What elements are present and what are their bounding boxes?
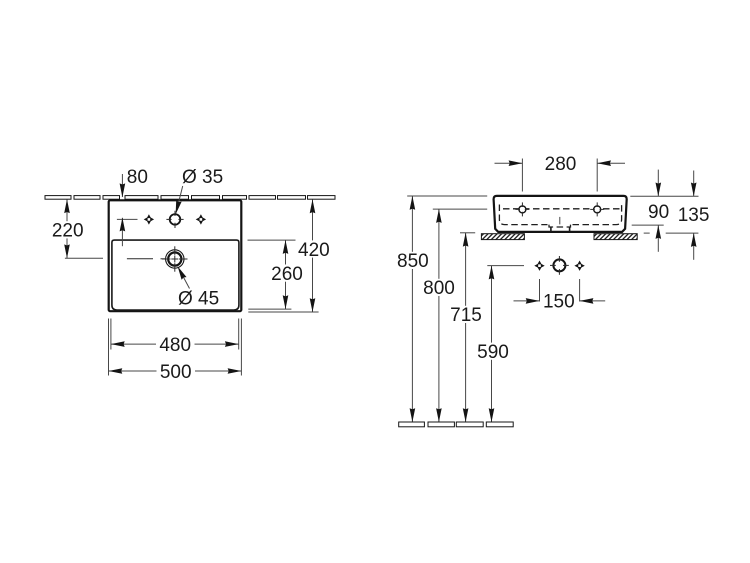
drain hole Ø45 outer circle — [166, 250, 184, 268]
extension line 480 left — [110, 319, 112, 350]
supply cross left — [534, 261, 544, 271]
svg-text:Ø 35: Ø 35 — [182, 167, 223, 188]
dim 80 lower stem — [121, 218, 123, 246]
dim 260 line — [285, 240, 287, 309]
dim 150 arrows — [526, 298, 540, 304]
supply cross right — [574, 261, 584, 271]
dim 715 line — [465, 233, 467, 422]
faucet hole cross left — [144, 214, 154, 224]
front hole right — [594, 206, 601, 213]
extension lines below basin (500 left) — [108, 319, 110, 376]
drain boss solid lines — [550, 227, 552, 232]
dim 280 line right part — [597, 162, 625, 164]
supply holes centerline — [487, 265, 524, 267]
basin front bowl dashed left side — [499, 205, 547, 225]
dim 220 label — [51, 221, 85, 238]
faucet hole circle Ø35 — [170, 214, 181, 225]
svg-text:150: 150 — [543, 292, 575, 313]
dim 280 extension line left — [521, 159, 523, 192]
dim 80 upper stem — [121, 174, 123, 197]
dim 420 bottom extension line — [248, 311, 318, 313]
wall hatch band (top view) — [45, 196, 335, 200]
faucet hole cross right — [196, 214, 206, 224]
center dash — [559, 217, 561, 225]
basin front bowl dashed right side — [573, 205, 622, 225]
svg-text:135: 135 — [678, 205, 710, 226]
dim 260 top extension line — [248, 239, 296, 241]
dim 480 line — [111, 343, 239, 345]
drain centerline — [127, 258, 165, 260]
basin front outline — [494, 196, 627, 232]
dim 715 label — [449, 306, 483, 323]
svg-text:715: 715 — [450, 305, 482, 326]
faucet hole circle ticks — [166, 211, 183, 228]
drain crosshair ticks — [162, 246, 188, 271]
front hole left — [519, 206, 526, 213]
dim 150 line parts — [514, 300, 540, 302]
dim 800 label — [422, 279, 456, 296]
dim 500 line — [109, 370, 242, 372]
extension line 500 right — [240, 319, 242, 376]
wall bracket hatch left — [481, 234, 524, 240]
svg-text:480: 480 — [159, 335, 191, 356]
dim 280 line left part — [495, 162, 523, 164]
svg-text:220: 220 — [52, 221, 84, 242]
dim 850 line — [411, 196, 413, 422]
drain circle front — [553, 259, 565, 271]
dim 135 stems and arrows — [693, 171, 695, 197]
svg-text:90: 90 — [648, 202, 669, 223]
wall bracket hatch right — [594, 234, 637, 240]
dim 220 arrows — [64, 199, 70, 213]
svg-text:Ø 45: Ø 45 — [178, 288, 219, 309]
svg-text:420: 420 — [298, 240, 330, 261]
dim 135 bottom extension (dash + line) — [644, 232, 650, 234]
basin outer rim (top view) — [109, 200, 242, 311]
svg-text:500: 500 — [160, 362, 192, 383]
dim 500 label — [157, 362, 196, 379]
dim 800 line — [438, 209, 440, 422]
floor hatch band — [399, 422, 514, 427]
dim 260 label — [270, 265, 305, 282]
dim 800 top extension line — [433, 208, 487, 210]
svg-text:80: 80 — [127, 167, 148, 188]
dim 90 bottom extension line — [632, 224, 664, 226]
Ø35 leader — [177, 186, 183, 210]
dim 480 label — [156, 336, 195, 353]
dim 590 line — [491, 266, 493, 422]
dim 220 line — [66, 199, 68, 258]
svg-text:590: 590 — [477, 342, 509, 363]
dim 90 stems and arrows — [657, 170, 659, 197]
basin front bowl dashed drain recess — [549, 225, 571, 227]
svg-text:260: 260 — [271, 264, 303, 285]
dim 850 label — [396, 252, 430, 269]
basin front inner rim dashed — [503, 208, 621, 210]
dim 150 extension lines — [539, 279, 541, 302]
dim 715 top extension line — [460, 232, 475, 234]
svg-text:800: 800 — [423, 278, 455, 299]
faucet hole centerline — [117, 218, 138, 220]
dim 280 extension line right — [596, 159, 598, 192]
dim 220 extension line (drain level) — [65, 257, 103, 259]
dim 420 label — [296, 240, 331, 257]
dim 90/135 top extension line — [630, 195, 698, 197]
dim 260 bottom extension line — [248, 308, 291, 310]
drain hole Ø45 inner circle — [168, 252, 181, 265]
dim 280 arrows — [509, 160, 523, 166]
dim 850 top extension line — [407, 195, 487, 197]
svg-text:850: 850 — [397, 251, 429, 272]
extension line 480 right — [238, 319, 240, 350]
svg-text:280: 280 — [545, 154, 577, 175]
basin inner bowl (top view) — [112, 240, 239, 310]
dim 590 label — [476, 343, 510, 360]
dim 420 line — [312, 199, 314, 312]
Ø45 leader — [180, 270, 190, 288]
